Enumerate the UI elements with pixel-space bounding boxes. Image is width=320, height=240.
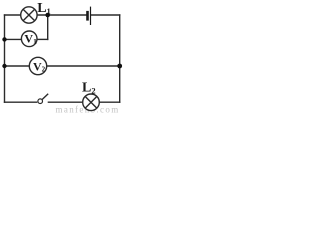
wire left vertical bbox=[4, 15, 6, 102]
voltmeter V1 bbox=[21, 31, 37, 47]
wire V1 branch horizontal bbox=[5, 38, 22, 40]
wire lamp L2 to bottom-right corner bbox=[99, 101, 119, 103]
wire V1 branch vertical up bbox=[47, 15, 49, 39]
lamp L2 bbox=[83, 94, 100, 111]
wire switch to lamp L2 bbox=[48, 101, 82, 103]
wire V2 branch horizontal right bbox=[47, 65, 120, 67]
switch lever bbox=[42, 94, 48, 100]
battery cell: long thin positive plate bbox=[90, 7, 92, 25]
wire battery to top-right corner bbox=[91, 14, 120, 16]
wire V2 branch horizontal left bbox=[5, 65, 30, 67]
lamp L1 bbox=[21, 7, 37, 23]
voltmeter V2 bbox=[29, 57, 46, 74]
wire V1 branch right horizontal bbox=[37, 38, 48, 40]
junction node left V2 bbox=[2, 64, 6, 68]
junction node right V2 bbox=[117, 64, 122, 69]
battery cell: short thick negative plate bbox=[86, 11, 89, 21]
wire top left to lamp L1 bbox=[5, 14, 21, 16]
switch S (open) pivot bbox=[38, 99, 43, 104]
junction node top (V1 branch) bbox=[45, 13, 50, 18]
wire right vertical bbox=[119, 15, 121, 102]
wire lamp L1 to battery bbox=[37, 14, 86, 16]
svg-text:L2: L2 bbox=[82, 81, 96, 96]
junction node left V1 bbox=[2, 37, 6, 41]
wire bottom left to switch bbox=[5, 101, 37, 103]
